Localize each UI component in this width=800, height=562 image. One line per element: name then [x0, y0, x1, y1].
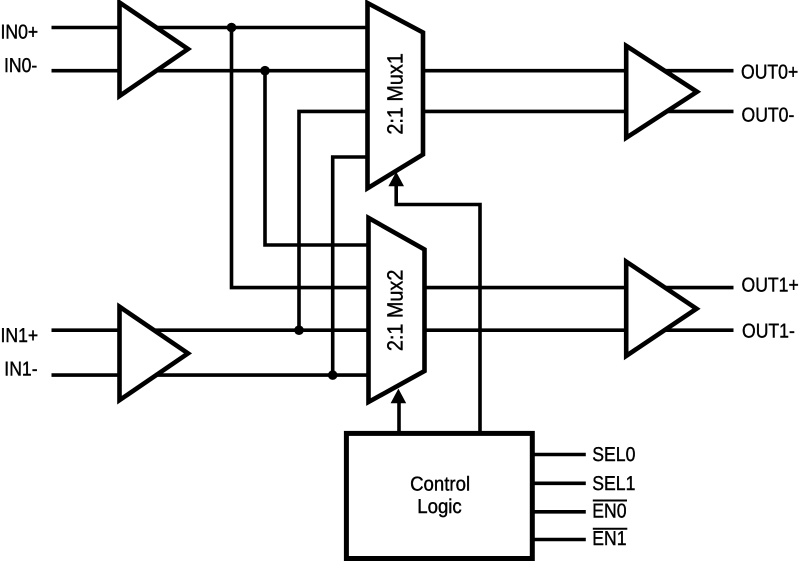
- svg-text:OUT1-: OUT1-: [742, 320, 795, 342]
- svg-text:2:1 Mux1: 2:1 Mux1: [383, 53, 408, 134]
- svg-text:IN1-: IN1-: [4, 358, 37, 380]
- svg-text:SEL1: SEL1: [592, 473, 635, 495]
- svg-text:EN1: EN1: [592, 528, 626, 550]
- svg-text:2:1 Mux2: 2:1 Mux2: [383, 270, 408, 351]
- svg-text:OUT0-: OUT0-: [742, 105, 795, 127]
- svg-text:Logic: Logic: [417, 496, 461, 518]
- svg-text:OUT0+: OUT0+: [741, 62, 798, 84]
- svg-text:IN1+: IN1+: [1, 325, 39, 347]
- svg-text:IN0+: IN0+: [1, 22, 39, 44]
- svg-text:EN0: EN0: [592, 500, 626, 522]
- svg-text:IN0-: IN0-: [4, 55, 37, 77]
- svg-text:OUT1+: OUT1+: [742, 275, 799, 297]
- svg-text:Control: Control: [410, 474, 470, 496]
- svg-text:SEL0: SEL0: [592, 444, 635, 466]
